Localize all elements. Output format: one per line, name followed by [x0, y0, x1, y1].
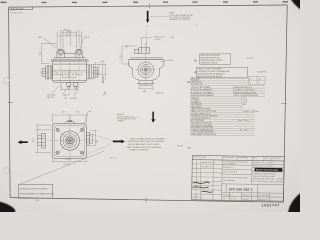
flange bolt holes — [56, 128, 84, 154]
svg-text:—: — — [99, 36, 101, 38]
bracket around circles — [57, 50, 83, 58]
svg-text:ELEMENT DE FIXATION: ELEMENT DE FIXATION — [169, 18, 191, 21]
svg-text:TOLERANCE: TOLERANCE — [238, 156, 249, 159]
frame centering ticks — [8, 3, 287, 202]
bore circles — [138, 62, 154, 78]
flange diagonals — [54, 125, 87, 157]
side view bottom dimension — [139, 86, 153, 90]
svg-text:SUIVANT NORME NFL: SUIVANT NORME NFL — [129, 149, 149, 152]
svg-text:⌀16: ⌀16 — [101, 60, 104, 63]
svg-text:PRESSION D'HUILE: PRESSION D'HUILE — [200, 62, 218, 64]
svg-text:MODELE A 3: MODELE A 3 — [192, 196, 202, 199]
dimensions below front view — [52, 84, 78, 97]
svg-text:REMPLACE PAR: REMPLACE PAR — [202, 161, 216, 164]
svg-text:⌀6,35: ⌀6,35 — [169, 59, 174, 62]
svg-text:⌀4,2 P: ⌀4,2 P — [83, 36, 90, 39]
right-side dimensions front view — [94, 62, 107, 84]
svg-text:L'USINE: L'USINE — [117, 121, 125, 123]
fiducial dashes top edge — [1, 1, 289, 3]
svg-text:FEUILLE: FEUILLE — [242, 195, 250, 197]
svg-text:REMPLACE PAR: REMPLACE PAR — [10, 8, 25, 11]
svg-text:REMPLACEMENT DE FABRICATION: REMPLACEMENT DE FABRICATION — [20, 193, 54, 196]
side view centerlines — [135, 43, 157, 88]
bottom view right dimension — [91, 130, 97, 145]
company logo black bar — [255, 168, 283, 172]
svg-text:±1: ±1 — [250, 78, 252, 80]
control rows — [190, 122, 255, 136]
svg-text:DATE DE FABRICATION DE L'APPAR: DATE DE FABRICATION DE L'APPAREIL — [127, 146, 162, 149]
svg-text:DE COMMANDE: DE COMMANDE — [223, 179, 237, 182]
dimensions above front view — [57, 30, 81, 49]
side view top dimension — [141, 31, 153, 47]
middle cells — [222, 165, 284, 193]
svg-text:46 210: 46 210 — [110, 157, 116, 159]
svg-text:⌀56,2 h: ⌀56,2 h — [65, 158, 72, 161]
svg-text:PRISE A DOUILLE DE RELAIS: PRISE A DOUILLE DE RELAIS — [197, 75, 223, 78]
spec block 1 box — [200, 54, 231, 64]
svg-text:973 530 226 3: 973 530 226 3 — [229, 187, 253, 191]
address lines — [253, 172, 285, 183]
svg-text:PROTECTION: PROTECTION — [191, 84, 203, 86]
leader lines from flange to note — [89, 134, 113, 141]
electrical rows — [190, 97, 255, 111]
punch hole lower — [3, 168, 9, 174]
svg-text:973 767: 973 767 — [247, 58, 254, 60]
svg-text:1: 1 — [252, 195, 253, 197]
svg-text:ECHELLE 1:1: ECHELLE 1:1 — [223, 167, 234, 169]
surface finish symbol — [104, 91, 106, 95]
left black arrow (pointing left) — [18, 140, 28, 144]
svg-text:200: 200 — [243, 104, 246, 106]
svg-text:973 530 226 0: 973 530 226 0 — [202, 166, 213, 168]
centerlines front view — [40, 45, 100, 95]
spec table and title block appended below — [190, 54, 285, 208]
title block outline — [192, 155, 285, 201]
svg-text:VALVE ELECTROMAGNETIQUE: VALVE ELECTROMAGNETIQUE — [223, 176, 249, 179]
svg-text:⌀ 8 mm — 170 mm: ⌀ 8 mm — 170 mm — [243, 111, 259, 113]
svg-text:43 210: 43 210 — [177, 146, 184, 148]
svg-text:93 — DEPT SEINE ST DENIS FRANC: 93 — DEPT SEINE ST DENIS FRANCE — [253, 180, 284, 183]
svg-text:0,5: 0,5 — [258, 78, 261, 80]
left stub — [42, 69, 46, 77]
svg-text:«B: «B — [194, 59, 197, 62]
bottom-left black blob — [0, 202, 15, 214]
svg-text:TYPE DE TRES GRAND: TYPE DE TRES GRAND — [191, 86, 212, 89]
bottom row cells — [222, 192, 284, 201]
svg-text:DATE DE FABRICATION DE L'APPAR: DATE DE FABRICATION DE L'APPAREIL — [130, 137, 165, 140]
bottom view bottom dimension — [52, 159, 86, 162]
right flange threaded — [87, 65, 98, 79]
bottom view left dimensions — [35, 125, 51, 153]
bottom-left replacement box — [18, 184, 53, 198]
punch hole upper — [3, 78, 9, 84]
svg-text:L'IDENTIFICATION ET LIEU DU FO: L'IDENTIFICATION ET LIEU DU FOURNISS. — [127, 140, 165, 143]
svg-text:38,35: 38,35 — [64, 95, 70, 97]
bottom view top dimensions — [52, 112, 88, 129]
body outline — [52, 61, 86, 81]
svg-text:d: d — [196, 25, 197, 27]
svg-text:COTES SANS: COTES SANS — [223, 156, 235, 159]
drawing frame border — [9, 5, 288, 202]
svg-text:REMPLACE DEFINITIVEMENT: REMPLACE DEFINITIVEMENT — [20, 188, 49, 191]
central bore circles — [60, 131, 79, 150]
spec block 2 box — [197, 67, 248, 77]
svg-text:8: 8 — [258, 82, 259, 84]
svg-text:1082747: 1082747 — [261, 203, 280, 207]
svg-text:M2: M2 — [171, 37, 174, 39]
svg-text:973 530 226 3: 973 530 226 3 — [10, 12, 24, 14]
left port circle — [58, 49, 64, 55]
svg-text:MODELE DES APPAREILS: MODELE DES APPAREILS — [191, 89, 214, 92]
svg-text:NE 22.5: NE 22.5 — [47, 97, 55, 99]
bottom-right black blob — [288, 193, 301, 214]
svg-text:FEUILLE 1/1: FEUILLE 1/1 — [258, 199, 268, 201]
svg-text:DESSINE 27.9.71 MARTIN: DESSINE 27.9.71 MARTIN — [253, 161, 274, 164]
svg-text:SERIE SPECIAL 24 V: SERIE SPECIAL 24 V — [234, 86, 252, 89]
cable rows — [190, 112, 255, 119]
side view body — [129, 60, 164, 81]
right port circle — [76, 49, 82, 55]
svg-text:⌀7 S-0: ⌀7 S-0 — [155, 38, 161, 41]
svg-text:- 40° + 80°: - 40° + 80° — [239, 129, 248, 131]
svg-text:⌀22 H8: ⌀22 H8 — [102, 76, 105, 83]
top boss notch — [65, 122, 75, 124]
bottom ports of front view — [67, 82, 78, 88]
svg-text:40 H: 40 H — [38, 37, 43, 39]
svg-text:MONTAGE DE L'APPAREIL: MONTAGE DE L'APPAREIL — [191, 91, 213, 94]
revision table — [192, 160, 223, 201]
right stub — [93, 67, 97, 77]
side view right leaders — [160, 60, 168, 62]
top-left continuation strip box — [9, 7, 33, 10]
svg-text:MODIFICATIONS: MODIFICATIONS — [193, 155, 207, 158]
svg-text:8 bar - 170 m: 8 bar - 170 m — [238, 120, 249, 122]
left vertical dimension front view — [41, 44, 56, 64]
body top plates — [54, 57, 86, 59]
svg-text:27.9.71 P. MARTIN: 27.9.71 P. MARTIN — [223, 170, 238, 173]
note block with box (cachet) — [117, 113, 137, 122]
svg-text:VERIFIE 28.9.71 DUPONT: VERIFIE 28.9.71 DUPONT — [253, 165, 273, 167]
right section rows — [252, 164, 284, 172]
diagonal revision line — [20, 151, 105, 184]
svg-text:WABCO: WABCO — [242, 198, 249, 201]
svg-text:973 530 226 3: 973 530 226 3 — [258, 195, 269, 197]
svg-text:27.9.71: 27.9.71 — [230, 198, 236, 200]
svg-text:COMPOSANTS DE SECURITE: COMPOSANTS DE SECURITE — [191, 133, 217, 136]
svg-text:M 22x1,5: M 22x1,5 — [48, 94, 57, 96]
left flange threaded — [42, 66, 52, 79]
small value box right of group A — [249, 76, 265, 84]
header row cells — [222, 156, 271, 201]
right port bottom view — [86, 132, 92, 145]
svg-text:CONSULT. CONSTRUCT.: CONSULT. CONSTRUCT. — [234, 90, 255, 92]
svg-text:WESTINGHOUSE: WESTINGHOUSE — [256, 170, 279, 172]
svg-text:2014 7819: 2014 7819 — [258, 72, 267, 74]
black right arrow note — [113, 140, 125, 144]
spec rows group A — [190, 79, 265, 86]
black down arrow mid — [151, 112, 155, 123]
revision scribbles — [192, 182, 212, 192]
svg-text:A 3: A 3 — [222, 197, 225, 200]
square flange — [52, 124, 86, 159]
dense matiere block — [190, 85, 265, 96]
left port bottom view — [38, 133, 46, 148]
svg-text:A/D: A/D — [188, 146, 192, 149]
svg-text:M 22x1,5: M 22x1,5 — [156, 93, 164, 95]
side view left dim — [122, 46, 137, 64]
foot — [138, 80, 140, 83]
svg-text:⌀0,25 A: ⌀0,25 A — [70, 97, 78, 100]
top plate side — [130, 57, 162, 59]
svg-text:LIEU DE FABRICATION DE L'USINE: LIEU DE FABRICATION DE L'USINE — [128, 143, 160, 146]
svg-text:DATE VISA: DATE VISA — [272, 157, 282, 160]
svg-text:1:1: 1:1 — [230, 194, 232, 196]
svg-text:± 0,4 RUGOSITE: ± 0,4 RUGOSITE — [223, 163, 237, 165]
lower note text — [127, 137, 166, 151]
top boss side — [139, 48, 150, 54]
black down arrow top — [146, 11, 150, 23]
svg-text:22,5: 22,5 — [120, 54, 122, 58]
bottom view centerlines — [44, 117, 96, 165]
top-right black corner blob — [291, 0, 302, 10]
svg-text:FACE D'ASSEMBLAGE AV.: FACE D'ASSEMBLAGE AV. — [234, 91, 257, 94]
body internal blocks — [52, 71, 87, 78]
